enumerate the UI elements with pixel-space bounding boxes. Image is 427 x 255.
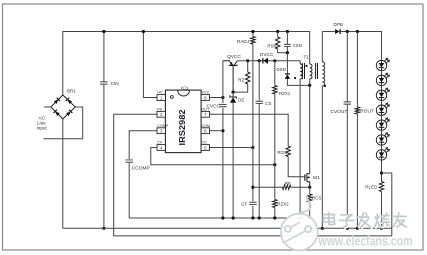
bridge rectifier BR1 — [51, 95, 76, 119]
wire CS pin — [210, 147, 253, 149]
T1 polarity dots — [305, 65, 307, 67]
wire — [381, 86, 383, 91]
wire — [381, 130, 383, 135]
wire secondary top — [322, 32, 381, 60]
capacitor CCOMP — [126, 160, 133, 162]
wire QVCC emitter to VCC, CVCC column — [222, 61, 224, 218]
svg-text:CVCC: CVCC — [207, 104, 221, 110]
BR1 diode top-right — [68, 99, 73, 104]
svg-text:BR1: BR1 — [67, 89, 76, 94]
wire VCC pin — [210, 97, 223, 99]
wire DC+ bus — [63, 32, 310, 96]
svg-text:ZX: ZX — [157, 141, 162, 145]
LED D5 — [376, 120, 386, 130]
LED D3 — [376, 90, 386, 100]
resistor RZX2 — [274, 165, 276, 200]
capacitor CSN — [286, 30, 289, 33]
watermark text dian-zi-fa-shao-you (drawn as paths) — [324, 214, 335, 226]
watermark logo — [281, 196, 318, 250]
svg-text:COMP: COMP — [157, 124, 169, 128]
T1 core 2 — [316, 63, 318, 79]
transistor QVCC — [223, 61, 233, 65]
wire — [381, 101, 383, 106]
wire OUT net to gate resistor — [210, 114, 289, 146]
capacitor CS — [258, 61, 260, 218]
svg-text:CSN: CSN — [293, 43, 302, 48]
wire FB net — [114, 114, 392, 236]
svg-text:DZ: DZ — [238, 98, 244, 103]
svg-text:RZX1: RZX1 — [279, 91, 291, 96]
svg-text:RSN: RSN — [267, 44, 276, 49]
wire gate — [288, 157, 305, 177]
wire AC input right loop — [44, 107, 83, 139]
diode DPB — [335, 29, 340, 34]
resistor ROUT — [356, 32, 358, 108]
resistor RLED — [379, 182, 383, 192]
resistor RZX1 — [274, 61, 276, 86]
wire RLED bypass — [382, 173, 392, 236]
svg-text:COM: COM — [202, 124, 211, 128]
svg-text:DSN: DSN — [277, 67, 286, 72]
diode DSN — [287, 53, 309, 86]
svg-text:DVCC: DVCC — [260, 52, 274, 58]
svg-text:RGS: RGS — [277, 150, 287, 155]
svg-text:VCC: VCC — [202, 91, 210, 95]
transformer T1 secondary winding — [321, 32, 323, 63]
svg-text:M1: M1 — [313, 175, 320, 181]
transformer T1 primary winding — [310, 64, 312, 79]
resistor RF — [253, 186, 283, 188]
svg-text:Input: Input — [37, 126, 48, 131]
wire COMP — [129, 131, 157, 218]
capacitor CVCC — [219, 104, 226, 106]
wire ZX net — [151, 148, 275, 165]
svg-text:RF: RF — [285, 181, 291, 186]
LED D7 — [376, 150, 386, 160]
svg-text:RLED: RLED — [365, 185, 378, 190]
wire — [381, 145, 383, 150]
wire — [381, 71, 383, 76]
svg-text:CCOMP: CCOMP — [132, 166, 150, 172]
T1 core — [302, 63, 304, 79]
svg-text:www.elecfans.com: www.elecfans.com — [318, 233, 413, 248]
resistor RSN — [276, 30, 279, 33]
transformer T1 aux winding — [299, 61, 301, 64]
pin 1 (HV) — [157, 95, 165, 101]
capacitor CVOUT — [346, 32, 348, 229]
svg-text:IC1: IC1 — [181, 86, 189, 92]
pin 2 (FB) — [157, 111, 165, 117]
transistor M1 (MOSFET) — [309, 85, 311, 173]
svg-text:CF: CF — [241, 202, 247, 207]
LED D1 — [376, 60, 386, 70]
svg-text:CVOUT: CVOUT — [331, 109, 348, 115]
diode DVCC — [262, 58, 264, 63]
resistor RADJ — [252, 32, 254, 37]
BR1 diode bottom-left — [55, 111, 60, 116]
capacitor CIN — [103, 32, 105, 229]
wire — [381, 115, 383, 120]
capacitor CF — [249, 202, 256, 204]
svg-text:RADJ: RADJ — [237, 39, 249, 44]
pin 6 (COM) — [201, 128, 209, 134]
wire VCC charge node — [237, 60, 300, 62]
svg-text:RZX2: RZX2 — [277, 202, 289, 207]
svg-text:T1: T1 — [304, 55, 310, 61]
resistor RCS — [309, 187, 311, 194]
pin 8 (VCC) — [201, 95, 209, 101]
wire DC- main rail — [63, 227, 392, 229]
BR1 diode bottom-right — [66, 111, 71, 116]
svg-text:FB: FB — [157, 108, 162, 112]
op IC1 IRS2982 body — [165, 90, 201, 153]
pin 5 (CS) — [201, 145, 209, 151]
svg-text:HV: HV — [157, 91, 163, 95]
wire COM pin — [210, 130, 223, 132]
pin 3 (COMP) — [157, 128, 165, 134]
pin 4 (ZX) — [157, 145, 165, 151]
svg-text:ROUT: ROUT — [360, 109, 374, 115]
svg-text:CIN: CIN — [111, 81, 120, 87]
svg-text:RCS: RCS — [312, 196, 321, 201]
svg-text:DPB: DPB — [334, 22, 343, 27]
wire bridge bottom to rail — [62, 119, 64, 228]
LED D6 — [376, 135, 386, 145]
zener DZ — [232, 91, 235, 94]
wire AC input left — [44, 106, 51, 108]
wire RADJ to CS node / CF column — [252, 44, 254, 218]
BR1 diode top-left — [54, 99, 59, 104]
svg-text:CS: CS — [202, 141, 208, 145]
resistor RGS — [286, 146, 290, 156]
resistor RZ — [247, 61, 249, 72]
wire LED string bottom — [381, 160, 383, 181]
svg-text:RZ: RZ — [238, 78, 244, 83]
LED D2 — [376, 75, 386, 85]
svg-text:QVCC: QVCC — [227, 54, 241, 60]
LED D4 — [376, 105, 386, 115]
pin 7 (OUT) — [201, 111, 209, 117]
wire HV pin feed — [143, 32, 157, 98]
svg-text:IRS2982: IRS2982 — [178, 109, 187, 146]
svg-text:CS: CS — [265, 101, 271, 106]
wire signal ground rail — [129, 217, 309, 219]
